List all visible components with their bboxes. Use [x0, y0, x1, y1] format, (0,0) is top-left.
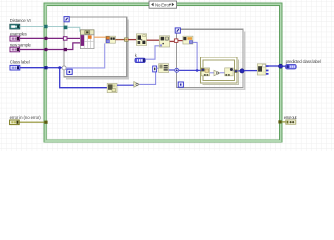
conversion box	[153, 66, 157, 72]
output stubs	[266, 65, 269, 67]
auto-index tunnel on loop2	[174, 39, 178, 43]
tunnel new sample on case border	[44, 48, 48, 52]
node bundle	[106, 36, 116, 43]
wire branch down to Array Size	[60, 68, 108, 88]
wire refnum inside case	[48, 26, 64, 28]
auto-index-off tunnel on loop2 left (ring)	[175, 68, 179, 72]
wire subset array into loop2	[170, 40, 175, 42]
wire size out	[117, 84, 134, 86]
tunnel on in-place right border	[234, 70, 237, 73]
for loop 2 N terminal	[175, 28, 180, 33]
wire examples inside case	[48, 37, 64, 39]
border node index element	[201, 68, 209, 76]
wire examples to CBR	[67, 37, 81, 39]
tunnel on case border (round, output)	[279, 64, 283, 68]
tunnel examples on case border	[44, 37, 48, 41]
decrement node	[134, 82, 140, 88]
svg-text:Class label: Class label	[10, 60, 30, 65]
tunnel new sample on loop1	[64, 48, 67, 51]
control terminal Distance VI (refnum)	[10, 24, 20, 29]
border node replace element	[225, 68, 233, 76]
wire class label	[20, 67, 45, 69]
svg-text:Distance VI: Distance VI	[10, 18, 31, 23]
wire sorted array	[147, 39, 160, 41]
tunnel on loop2 right edge (round)	[240, 69, 244, 73]
junction dot	[58, 66, 61, 69]
wire to Index Array node	[178, 40, 183, 42]
wire new sample	[20, 49, 45, 51]
wire decremented size	[139, 72, 155, 84]
control terminal Class label	[10, 65, 20, 70]
wire from loop1 tunnel to Sort	[128, 39, 136, 41]
tunnel on loop1 border (refnum)	[64, 26, 68, 30]
svg-text:No Error: No Error	[155, 2, 171, 7]
wire Distance VI	[20, 26, 45, 28]
tunnel on case border (refnum)	[44, 25, 47, 28]
wire distance (DBL)	[94, 36, 106, 38]
for loop 2 frame	[177, 29, 245, 89]
node Sort 1D Array	[136, 34, 146, 46]
case structure (No Error) green border	[44, 3, 282, 142]
node Array Subset	[159, 36, 169, 47]
for loop 1 N terminal	[64, 17, 69, 22]
auto-index tunnel out of loop1	[125, 38, 128, 41]
node Array Size	[107, 83, 117, 92]
in-place element structure (olive double border)	[200, 57, 238, 84]
wire new sample to CBR	[67, 43, 81, 50]
wire zeros array to loop2	[169, 69, 175, 71]
circle tunnel on loop1 left edge	[62, 66, 66, 70]
tunnel error on case border right	[278, 120, 281, 123]
node Index Array	[183, 36, 193, 44]
grid background	[0, 0, 334, 151]
wire examples	[20, 37, 45, 39]
wire to in-place structure	[179, 69, 202, 71]
wire k to Array Subset	[145, 46, 159, 59]
control terminal examples	[10, 36, 20, 41]
node Array Max & Min	[257, 64, 266, 75]
wire to indicator	[283, 65, 286, 67]
wire max index out	[268, 65, 279, 67]
wire class label inside case	[48, 67, 62, 69]
node Initialize Array	[159, 64, 169, 73]
constant k	[135, 58, 145, 63]
wire to loop2 right tunnel	[238, 70, 241, 72]
wire increment to replace	[220, 71, 235, 73]
svg-text:predicted class label: predicted class label	[286, 59, 321, 64]
control terminal error in	[10, 120, 20, 125]
indicator error out	[286, 120, 296, 124]
tunnel class label on case border	[44, 66, 47, 69]
junction with index wire	[196, 69, 199, 72]
wire error in	[19, 121, 45, 123]
wire conversion to Initialize Array	[157, 67, 159, 69]
wire i-element (lavender)	[66, 43, 104, 68]
control terminal new sample	[10, 47, 20, 52]
indicator predicted class label	[285, 64, 296, 69]
wire to error out	[282, 121, 286, 123]
svg-text:error out: error out	[284, 115, 298, 120]
svg-text:error in (no error): error in (no error)	[10, 115, 42, 120]
wire element to increment	[210, 72, 214, 74]
wire cluster out of bundle	[115, 39, 124, 41]
wire index-array output down to main blue wire	[193, 42, 197, 70]
increment node	[214, 70, 220, 75]
for loop 1 frame	[64, 17, 128, 79]
case selector label "No Error"	[149, 1, 177, 8]
tunnel error on case border left	[44, 121, 47, 124]
wire new sample inside case	[48, 49, 64, 51]
wire refnum to CBR node	[67, 27, 80, 31]
wire votes array to Max&Min	[244, 70, 257, 72]
auto-index tunnel examples on loop1	[63, 37, 67, 41]
for loop 2 iteration terminal i	[178, 82, 183, 87]
for loop 1 iteration terminal i	[67, 69, 72, 74]
